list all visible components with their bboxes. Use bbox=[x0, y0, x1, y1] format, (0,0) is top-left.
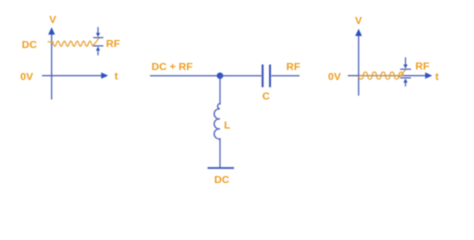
left graph DC level tick bbox=[48, 41, 54, 43]
right graph RF waveform loops bbox=[359, 72, 403, 79]
left graph waveform final upswing bbox=[93, 38, 99, 46]
wire: node down to inductor bbox=[219, 76, 221, 105]
wire: input to node bbox=[150, 75, 220, 77]
capacitor C plates bbox=[263, 65, 270, 88]
wire: capacitor to RF output bbox=[271, 75, 299, 77]
svg-text:RF: RF bbox=[415, 61, 430, 73]
left graph DC+RF waveform bbox=[52, 41, 93, 46]
svg-text:V: V bbox=[355, 15, 362, 27]
inductor L bbox=[214, 104, 220, 141]
svg-text:0V: 0V bbox=[328, 71, 341, 83]
svg-text:RF: RF bbox=[106, 38, 121, 50]
left graph V axis bbox=[48, 27, 55, 99]
svg-text:C: C bbox=[262, 91, 270, 103]
svg-text:DC: DC bbox=[214, 174, 230, 186]
svg-text:L: L bbox=[224, 119, 231, 131]
svg-text:0V: 0V bbox=[20, 71, 33, 83]
DC terminal bar bbox=[208, 167, 235, 169]
right graph waveform final upswing bbox=[399, 70, 405, 78]
svg-text:RF: RF bbox=[286, 61, 301, 73]
right graph V axis bbox=[355, 29, 362, 96]
right graph t axis bbox=[348, 72, 432, 78]
svg-text:t: t bbox=[115, 70, 119, 82]
right RF amplitude marker bbox=[400, 57, 411, 86]
wire: inductor to DC terminal bbox=[219, 140, 221, 169]
svg-text:DC + RF: DC + RF bbox=[152, 61, 194, 73]
svg-text:t: t bbox=[435, 71, 439, 83]
left RF amplitude marker bbox=[93, 27, 103, 55]
node junction bbox=[217, 73, 223, 79]
left graph t axis bbox=[42, 72, 108, 78]
wire: node to capacitor bbox=[220, 75, 261, 77]
svg-text:DC: DC bbox=[22, 39, 38, 51]
svg-text:V: V bbox=[49, 14, 56, 26]
